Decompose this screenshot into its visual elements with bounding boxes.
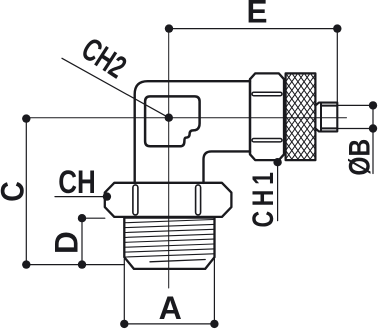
tube stub top line <box>321 105 337 107</box>
dot C bottom <box>22 260 30 268</box>
dimension D top extension <box>82 217 105 219</box>
dimension B top extension <box>337 104 373 106</box>
knurled ring outline <box>286 73 316 160</box>
hex nut CH facet band left <box>133 185 138 215</box>
centerline vertical (elbow axis) <box>168 29 170 288</box>
dot CH1 leader end <box>273 158 281 166</box>
dimension B line <box>372 105 374 173</box>
svg-text:CH1: CH1 <box>246 167 279 227</box>
thread lines <box>126 220 214 258</box>
svg-text:A: A <box>159 290 182 326</box>
dot D top <box>78 214 86 222</box>
dot A right <box>210 320 218 328</box>
dimension E line <box>169 28 337 30</box>
dot E right <box>333 24 341 32</box>
svg-text:C: C <box>0 181 31 202</box>
release collar inner ring line <box>320 103 322 132</box>
dot C top <box>22 114 30 122</box>
dimension E right extension <box>336 29 338 106</box>
dot B bottom <box>369 124 377 132</box>
dimension C line <box>25 119 27 265</box>
elbow inner cavity profile <box>145 96 200 146</box>
hex nut CH (body nut) outline <box>105 183 232 217</box>
release collar outer profile <box>315 103 337 132</box>
leader line CH2 <box>62 58 169 117</box>
dimension B bottom extension <box>337 128 373 130</box>
dimension A line <box>124 323 214 325</box>
dot E left <box>165 24 173 32</box>
hex nut CH1 facet band upper <box>252 92 282 95</box>
dimension A right extension <box>213 259 215 324</box>
dimension C/D bottom extension <box>26 264 124 266</box>
svg-text:E: E <box>247 0 268 29</box>
leader line CH1 <box>277 162 279 220</box>
threaded stud outline <box>124 218 214 269</box>
tube stub bottom line <box>321 127 337 129</box>
hex nut CH1 facet band lower <box>252 139 282 142</box>
dimension A left extension <box>123 259 125 324</box>
svg-text:ØB: ØB <box>344 139 377 176</box>
dot CH2 leader end <box>165 114 173 122</box>
leader line CH <box>55 196 107 198</box>
svg-text:CH: CH <box>58 164 95 200</box>
centerline horizontal (side port axis) <box>26 117 346 119</box>
dot CH leader end <box>103 192 111 200</box>
knurled ring crosshatch <box>286 73 316 160</box>
thread chamfer line <box>150 260 205 262</box>
hex nut CH facet band right <box>196 185 201 215</box>
hex nut CH1 left face line <box>249 79 251 154</box>
dimension D line <box>81 218 83 264</box>
dot D bottom <box>78 260 86 268</box>
dot A left <box>120 320 128 328</box>
svg-text:D: D <box>49 231 85 254</box>
dot B top <box>369 101 377 109</box>
elbow body outer outline <box>135 81 250 183</box>
hex nut CH1 (cartridge nut) outline <box>250 73 284 160</box>
